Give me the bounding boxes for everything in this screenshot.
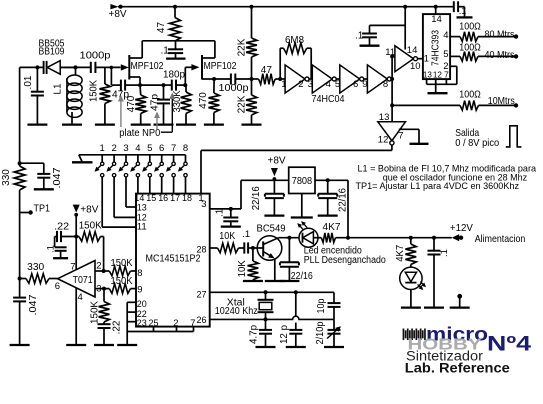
inverter 74HC04 gate A (pins 1-2) bbox=[285, 65, 305, 93]
svg-text:47p: 47p bbox=[150, 94, 161, 111]
ground bbox=[27, 123, 47, 125]
svg-text:MPF102: MPF102 bbox=[204, 61, 237, 72]
IC 74HC393 body bbox=[423, 14, 450, 79]
svg-text:1: 1 bbox=[281, 79, 286, 90]
ground bbox=[66, 344, 86, 346]
wires pins 25 2 7 to ground bus bbox=[153, 327, 155, 332]
label 22/16 bbox=[251, 186, 262, 210]
label L1 bbox=[53, 83, 64, 95]
ground bbox=[53, 257, 68, 259]
svg-text:22/16: 22/16 bbox=[338, 188, 349, 212]
resistor 47 (drain supply) bbox=[174, 7, 176, 18]
ground bbox=[34, 188, 54, 190]
wires pins 20 22 23 to ground bbox=[127, 301, 136, 303]
svg-text:3: 3 bbox=[201, 199, 206, 210]
capacitor .1 (+12V bypass) bbox=[432, 236, 436, 240]
wire op-amp V+ pin 7 bbox=[75, 215, 77, 271]
svg-text:150K: 150K bbox=[111, 258, 133, 269]
svg-text:4.7p: 4.7p bbox=[248, 325, 259, 344]
svg-text:470: 470 bbox=[198, 92, 209, 109]
svg-text:.1: .1 bbox=[459, 6, 467, 16]
svg-text:7: 7 bbox=[70, 261, 75, 272]
capacitor .1 (drain bypass) bbox=[175, 41, 177, 49]
svg-text:plate NP0: plate NP0 bbox=[119, 128, 160, 139]
resistor 6M8 (feedback) bbox=[278, 77, 282, 81]
label .1 bbox=[46, 245, 57, 253]
transistor MPF102 (second JFET) bbox=[185, 66, 191, 68]
svg-text:100Ω: 100Ω bbox=[459, 89, 481, 100]
ground (switch common) bbox=[72, 161, 93, 163]
capacitor .01 bbox=[35, 65, 39, 69]
svg-text:12 p: 12 p bbox=[279, 325, 290, 344]
LED (PLL lock indicator) bbox=[299, 228, 318, 247]
resistor 330 (op-amp input) bbox=[20, 278, 26, 280]
svg-text:Alimentacion: Alimentacion bbox=[475, 233, 526, 245]
resistor 470 (source #2) bbox=[212, 77, 216, 81]
svg-text:Nº4: Nº4 bbox=[487, 333, 531, 356]
op-amp T071 bbox=[58, 261, 95, 298]
wire op-amp pin 4 bbox=[75, 288, 77, 344]
wire input line bbox=[20, 66, 44, 68]
ground bbox=[204, 123, 224, 125]
resistor 22K (upper) bbox=[251, 7, 253, 38]
ground bbox=[95, 123, 115, 125]
wire drain rail bbox=[142, 40, 215, 42]
inverter 74HC04 gate D (pins 9-8) bbox=[367, 65, 387, 93]
wire 7808 ground lead bbox=[301, 194, 303, 217]
svg-text:7: 7 bbox=[444, 70, 449, 80]
svg-text:10p: 10p bbox=[316, 298, 327, 313]
resistor 470 (source #1) bbox=[138, 83, 142, 87]
svg-text:.047: .047 bbox=[52, 167, 63, 188]
svg-text:14: 14 bbox=[431, 14, 442, 25]
LED emission arrows bbox=[299, 225, 304, 230]
node bbox=[18, 161, 22, 165]
resistor 100Ω (80m output) bbox=[460, 32, 478, 42]
svg-text:.1: .1 bbox=[355, 30, 364, 41]
ground bbox=[279, 280, 299, 282]
svg-text:8: 8 bbox=[383, 79, 388, 90]
capacitor .1 (VDD bypass) bbox=[229, 207, 233, 211]
svg-text:15: 15 bbox=[146, 193, 156, 204]
wire switch 2 to pin 12 bbox=[113, 177, 115, 218]
wire inverter pin 7 bbox=[399, 128, 419, 130]
svg-text:.1: .1 bbox=[161, 46, 170, 57]
label .047 bbox=[28, 294, 39, 315]
capacitor 12p bbox=[295, 292, 297, 316]
label .01 bbox=[23, 75, 34, 89]
ground bbox=[286, 346, 306, 348]
LED emission arrows bbox=[418, 284, 422, 288]
capacitor .047 (lower) bbox=[18, 277, 22, 281]
capacitor 180p bbox=[164, 84, 172, 86]
junctions on +12V rail bbox=[346, 236, 350, 240]
wire switch 1 to pin 11 bbox=[101, 177, 103, 227]
svg-text:4: 4 bbox=[78, 292, 83, 303]
svg-text:470: 470 bbox=[126, 95, 137, 112]
label .047 bbox=[52, 167, 63, 188]
svg-text:330K: 330K bbox=[172, 90, 183, 112]
test point TP1 bbox=[20, 212, 30, 214]
svg-text:40 Mtrs: 40 Mtrs bbox=[485, 50, 515, 61]
svg-text:330: 330 bbox=[1, 169, 12, 186]
svg-text:PLL Desenganchado: PLL Desenganchado bbox=[304, 255, 386, 266]
resistor 100Ω (40m output) bbox=[460, 52, 478, 62]
svg-text:6: 6 bbox=[353, 79, 358, 90]
inverter 74HC04 gate B (pins 3-4) bbox=[312, 65, 332, 93]
svg-text:13: 13 bbox=[379, 112, 390, 123]
label 22K bbox=[237, 38, 248, 56]
svg-text:12: 12 bbox=[378, 134, 389, 145]
svg-text:330: 330 bbox=[27, 262, 44, 273]
ground bbox=[166, 57, 186, 59]
ground bbox=[94, 344, 114, 346]
label 150K bbox=[90, 301, 101, 324]
svg-text:.1: .1 bbox=[242, 229, 250, 240]
wires 74HC393 ground pins bbox=[426, 79, 428, 84]
ground bbox=[62, 123, 82, 125]
ground bbox=[324, 346, 344, 348]
wire inverter output to MC145151 pin 1 bbox=[391, 145, 393, 150]
terminal point bbox=[457, 294, 462, 299]
ground bbox=[291, 216, 313, 218]
transistor BC549 bbox=[257, 236, 282, 261]
resistor 4K7 + wire to +12V bbox=[321, 233, 335, 243]
capacitor 2/10p (trimmer) bbox=[333, 319, 335, 329]
wire pin 3 VDD bbox=[210, 208, 241, 210]
svg-text:22K: 22K bbox=[237, 38, 248, 56]
svg-text:18: 18 bbox=[182, 193, 192, 204]
capacitor 47p (second, NP0) bbox=[140, 84, 164, 86]
svg-text:12: 12 bbox=[433, 70, 442, 80]
svg-text:74HC04: 74HC04 bbox=[312, 94, 345, 105]
svg-text:4K7: 4K7 bbox=[395, 244, 406, 261]
varactor diode BB505/BB109 bbox=[43, 61, 45, 74]
svg-text:T071: T071 bbox=[73, 275, 93, 286]
capacitor 10p bbox=[333, 292, 335, 302]
svg-text:1000p: 1000p bbox=[219, 83, 249, 94]
svg-text:26: 26 bbox=[197, 315, 207, 326]
svg-text:22K: 22K bbox=[237, 95, 248, 113]
inductor L1 bbox=[67, 75, 82, 85]
svg-text:10Mtrs: 10Mtrs bbox=[488, 96, 515, 107]
svg-text:4K7: 4K7 bbox=[323, 222, 341, 233]
svg-text:2: 2 bbox=[111, 143, 116, 154]
wire pin 26 (with hop) bbox=[210, 316, 334, 319]
svg-text:10K: 10K bbox=[219, 231, 235, 242]
label 470 bbox=[126, 95, 137, 112]
svg-text:28: 28 bbox=[197, 245, 207, 256]
svg-text:100Ω: 100Ω bbox=[459, 42, 481, 53]
label 4.7p bbox=[248, 325, 259, 344]
svg-text:11: 11 bbox=[137, 222, 147, 233]
capacitor .1 (op-amp) bbox=[54, 237, 56, 248]
svg-text:9: 9 bbox=[137, 285, 142, 296]
ground bbox=[264, 214, 284, 216]
ground bbox=[450, 306, 470, 308]
svg-text:BB109: BB109 bbox=[39, 47, 65, 58]
svg-text:.1: .1 bbox=[215, 208, 226, 217]
LED (power indicator) bbox=[400, 267, 422, 289]
IC MC145151P2 body bbox=[136, 194, 210, 327]
svg-text:6: 6 bbox=[159, 143, 164, 154]
resistor 150K (feedback) bbox=[79, 232, 101, 242]
logo barcode bbox=[403, 329, 405, 341]
label .1 bbox=[439, 249, 450, 257]
svg-text:.1: .1 bbox=[46, 245, 57, 253]
resistor 150K (vertical) bbox=[102, 287, 106, 291]
label 470 bbox=[198, 92, 209, 109]
ground bbox=[424, 306, 444, 308]
svg-text:150K: 150K bbox=[111, 276, 133, 287]
svg-text:2: 2 bbox=[298, 79, 303, 90]
svg-text:11: 11 bbox=[385, 47, 395, 58]
capacitor 47p (gate-source) bbox=[110, 66, 114, 70]
wire 74HC04 pin 14 supply bbox=[404, 7, 406, 50]
svg-text:2/10p: 2/10p bbox=[315, 321, 326, 344]
wire switch to IC top pin bbox=[173, 177, 175, 194]
svg-text:+8V: +8V bbox=[80, 204, 98, 215]
svg-text:150K: 150K bbox=[89, 80, 100, 102]
svg-text:150K: 150K bbox=[90, 301, 101, 324]
svg-text:180p: 180p bbox=[163, 69, 185, 80]
svg-text:7: 7 bbox=[398, 130, 403, 141]
svg-text:4: 4 bbox=[135, 143, 140, 154]
svg-text:10K: 10K bbox=[237, 260, 248, 277]
svg-text:0 / 8V pico: 0 / 8V pico bbox=[455, 138, 499, 149]
wire 7808 input from +12V bbox=[347, 180, 349, 237]
resistor 100Ω (10m output) bbox=[392, 104, 460, 106]
gray arrow to 47p bbox=[120, 100, 122, 127]
svg-text:L1: L1 bbox=[53, 83, 64, 95]
inverter 74HC04 gate F (pins 13-12) bbox=[378, 122, 406, 141]
capacitor .1 (74HC04 supply) bbox=[370, 24, 406, 26]
resistor 22K (lower) bbox=[250, 77, 254, 81]
svg-text:.22: .22 bbox=[54, 221, 69, 232]
ground bbox=[243, 280, 263, 282]
ground bbox=[410, 143, 429, 145]
capacitor .1 (base coupling) bbox=[243, 242, 245, 253]
wire switch to IC top pin bbox=[185, 177, 187, 194]
capacitor .047 (upper) bbox=[20, 162, 44, 164]
label 2/10p bbox=[315, 321, 326, 344]
svg-text:4: 4 bbox=[443, 30, 448, 41]
arrow NP0 to 180p bbox=[161, 131, 173, 133]
svg-text:.01: .01 bbox=[23, 75, 34, 89]
wire +8V regulator rail bbox=[241, 179, 289, 181]
inverter 74HC04 gate E (pins 11-10) bbox=[392, 55, 395, 57]
wire collector bbox=[278, 237, 279, 240]
junctions on +8V rail bbox=[173, 5, 177, 9]
capacitor .1 (top right decoupling) bbox=[453, 1, 455, 12]
svg-text:8: 8 bbox=[137, 268, 142, 279]
svg-text:6: 6 bbox=[55, 281, 60, 292]
pulse waveform symbol bbox=[506, 126, 522, 147]
svg-text:2: 2 bbox=[96, 261, 101, 272]
capacitor 4.7p bbox=[265, 319, 267, 329]
resistor 150K (gate bias) bbox=[104, 67, 106, 84]
svg-text:.047: .047 bbox=[28, 294, 39, 315]
svg-text:13: 13 bbox=[423, 70, 432, 80]
svg-text:5: 5 bbox=[443, 49, 448, 60]
svg-text:1: 1 bbox=[100, 143, 105, 154]
resistor 47 (to inverter) bbox=[252, 78, 259, 80]
svg-text:BC549: BC549 bbox=[257, 223, 286, 234]
ground bbox=[176, 123, 196, 125]
wire +8V top rail bbox=[118, 6, 454, 8]
resistor 330 (vertical) on TP1 line bbox=[19, 67, 21, 166]
svg-text:1: 1 bbox=[424, 54, 429, 65]
wire pin 27 bbox=[210, 291, 334, 293]
label .22 bbox=[112, 320, 123, 334]
svg-text:.22: .22 bbox=[112, 320, 123, 334]
ground bbox=[360, 45, 380, 47]
capacitor 1000p (output coupling) bbox=[214, 78, 231, 80]
label 150K bbox=[89, 80, 100, 102]
resistor 150K (pin 9) bbox=[95, 288, 109, 290]
voltage regulator 7808 bbox=[289, 167, 315, 193]
label 74HC393 bbox=[431, 30, 442, 66]
label 330K bbox=[172, 90, 183, 112]
svg-text:27: 27 bbox=[197, 290, 207, 301]
wire emitter bbox=[274, 258, 276, 280]
svg-text:47: 47 bbox=[261, 65, 273, 76]
ground bbox=[318, 214, 338, 216]
svg-text:22/16: 22/16 bbox=[251, 186, 262, 210]
wire switch common rail bbox=[79, 154, 186, 156]
resistor 150K (pin 8) bbox=[95, 270, 109, 272]
capacitor .22 (lower) bbox=[98, 323, 111, 325]
ground bbox=[154, 123, 174, 125]
svg-text:5: 5 bbox=[147, 143, 152, 154]
ground bbox=[242, 123, 262, 125]
ground bbox=[131, 123, 151, 125]
wire switch to IC top pin bbox=[149, 177, 151, 194]
node L1 top bbox=[74, 65, 78, 69]
resistor 330K bbox=[183, 83, 187, 87]
ground bbox=[428, 92, 448, 94]
resistor 10K (base bias) bbox=[251, 246, 255, 250]
capacitor 1000p (VCO input) bbox=[90, 62, 92, 73]
label 22/16 bbox=[338, 188, 349, 212]
svg-text:Lab. Reference: Lab. Reference bbox=[405, 361, 511, 376]
ground bbox=[457, 16, 473, 18]
crystal Xtal 10240 Khz bbox=[265, 292, 267, 299]
label 22K bbox=[237, 95, 248, 113]
resistor 10K (pin 28) bbox=[210, 247, 218, 249]
ground bbox=[256, 346, 276, 348]
capacitor 22/16 (left) bbox=[273, 180, 275, 193]
svg-text:MPF102: MPF102 bbox=[131, 61, 164, 72]
wire switch to IC top pin bbox=[137, 177, 139, 194]
svg-text:150K: 150K bbox=[79, 220, 102, 231]
ground bbox=[265, 280, 285, 282]
wire switch 3 to pin 13 bbox=[125, 177, 127, 207]
svg-text:.1: .1 bbox=[439, 249, 450, 257]
label 4K7 bbox=[395, 244, 406, 261]
inverter 74HC04 gate C (pins 5-6) bbox=[340, 65, 360, 93]
svg-text:7: 7 bbox=[171, 143, 176, 154]
svg-text:16: 16 bbox=[158, 193, 168, 204]
svg-text:+8V: +8V bbox=[268, 155, 286, 166]
svg-text:+12V: +12V bbox=[450, 222, 473, 234]
svg-text:14: 14 bbox=[407, 45, 418, 56]
svg-text:+8V: +8V bbox=[109, 9, 127, 20]
svg-text:TP1: TP1 bbox=[34, 203, 51, 214]
svg-text:6M8: 6M8 bbox=[285, 35, 304, 46]
svg-text:TP1= Ajustar L1 para 4VDC en 3: TP1= Ajustar L1 para 4VDC en 3600Khz bbox=[356, 181, 520, 191]
ground bbox=[221, 225, 241, 227]
svg-text:MC145151P2: MC145151P2 bbox=[146, 254, 201, 265]
svg-text:10240 Khz: 10240 Khz bbox=[215, 306, 258, 317]
ground bbox=[117, 344, 137, 346]
ground bbox=[401, 306, 421, 308]
svg-text:74HC393: 74HC393 bbox=[431, 30, 442, 66]
label 10K bbox=[237, 260, 248, 277]
label 330 bbox=[1, 169, 12, 186]
label 47p (rotated) bbox=[150, 94, 161, 111]
svg-text:8: 8 bbox=[183, 143, 188, 154]
svg-text:1000p: 1000p bbox=[80, 51, 111, 62]
wire switch to IC top pin bbox=[161, 177, 163, 194]
svg-text:4: 4 bbox=[326, 79, 331, 90]
wire node (inverter output bus) bbox=[391, 56, 393, 121]
label 12 p bbox=[279, 325, 290, 344]
transistor MPF102 (first JFET) bbox=[121, 64, 129, 70]
svg-text:10: 10 bbox=[410, 61, 421, 72]
capacitor .22 (feedback) bbox=[55, 236, 57, 238]
gray arrow to 47p second bbox=[156, 117, 158, 130]
svg-text:23: 23 bbox=[137, 318, 147, 329]
svg-text:80 Mtrs: 80 Mtrs bbox=[485, 30, 515, 41]
svg-text:7808: 7808 bbox=[292, 176, 313, 187]
label .1 bbox=[215, 208, 226, 217]
+8V supply arrow (top left) bbox=[110, 4, 118, 9]
svg-text:100Ω: 100Ω bbox=[459, 21, 481, 32]
ground bbox=[10, 344, 30, 346]
svg-text:47: 47 bbox=[156, 22, 167, 34]
label 10p bbox=[316, 298, 327, 313]
capacitor 22/16 (emitter... decoupling) bbox=[287, 236, 291, 240]
svg-text:3: 3 bbox=[123, 143, 128, 154]
capacitor 22/16 (right) bbox=[326, 178, 330, 182]
svg-text:17: 17 bbox=[170, 193, 180, 204]
resistor 4K7 (LED) bbox=[410, 238, 412, 244]
